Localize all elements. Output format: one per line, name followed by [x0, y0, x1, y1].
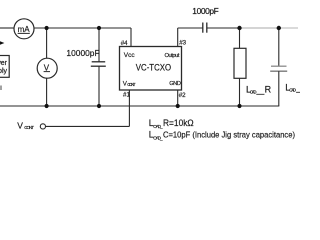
svg-text:V: V	[17, 121, 23, 131]
svg-text:C=10pF (Include Jig stray capa: C=10pF (Include Jig stray capacitance)	[163, 130, 295, 140]
svg-text:V: V	[44, 63, 50, 72]
svg-text:CONT: CONT	[24, 125, 34, 131]
svg-text:GND: GND	[169, 81, 181, 87]
svg-text:10000pF: 10000pF	[66, 48, 99, 58]
svg-text:1000pF: 1000pF	[192, 6, 219, 16]
svg-text:Output: Output	[165, 53, 180, 59]
svg-text:Vcc: Vcc	[124, 52, 136, 59]
svg-text:CONT: CONT	[127, 82, 136, 87]
svg-text:OAD_: OAD_	[153, 124, 163, 129]
svg-text:VC-TCXO: VC-TCXO	[136, 62, 171, 73]
svg-text:#1: #1	[123, 91, 130, 98]
svg-text:mA: mA	[18, 25, 31, 34]
svg-text:#4: #4	[121, 40, 128, 47]
svg-text:#3: #3	[179, 39, 186, 46]
svg-text:OAD_: OAD_	[153, 135, 163, 140]
svg-text:Supply: Supply	[0, 68, 7, 75]
svg-text:R=10kΩ: R=10kΩ	[163, 118, 194, 128]
svg-text:Power: Power	[0, 60, 8, 67]
svg-text:R: R	[265, 84, 272, 94]
svg-text:#2: #2	[179, 92, 186, 99]
svg-text:_C: _C	[295, 83, 300, 93]
